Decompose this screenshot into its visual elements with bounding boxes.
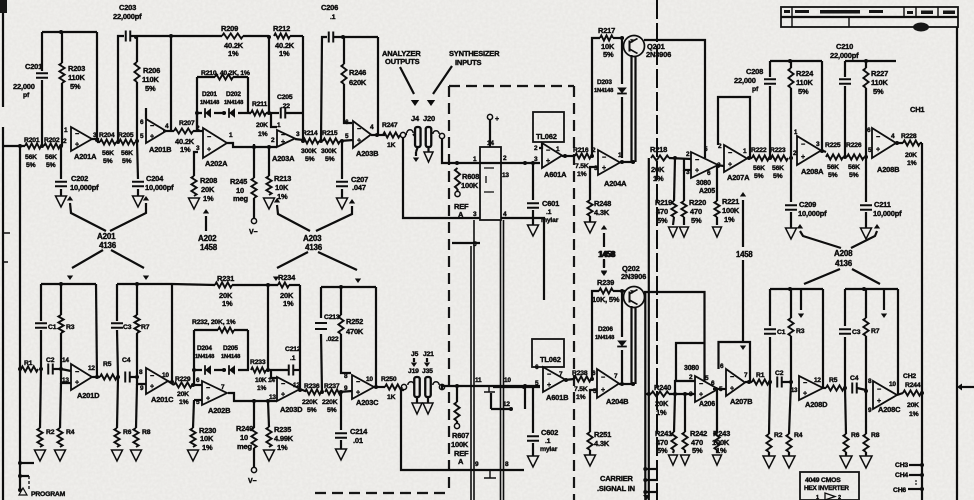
svg-text:10K, 5%: 10K, 5%	[592, 295, 620, 304]
wire R217 to base	[613, 37, 624, 39]
terminal V- bottom	[251, 467, 256, 472]
svg-text:+: +	[695, 168, 699, 175]
node A201B pin5 junction	[135, 139, 139, 143]
resistor R236	[305, 389, 321, 394]
resistor R243 drop	[716, 389, 718, 432]
node A208A output	[820, 149, 824, 153]
svg-text:5%: 5%	[307, 407, 317, 414]
wire D203 drop	[621, 38, 623, 84]
resistor R220	[681, 201, 686, 217]
svg-text:R204: R204	[99, 132, 115, 139]
wire R229 to A202B	[192, 384, 202, 386]
svg-text:5%: 5%	[873, 87, 884, 96]
wire pin12 link	[491, 408, 511, 410]
wire main line bottom	[442, 386, 444, 390]
svg-text:R233: R233	[250, 359, 266, 366]
analyzer pointer	[400, 67, 414, 94]
svg-text:CH2: CH2	[903, 373, 916, 380]
svg-text:D206: D206	[598, 326, 613, 333]
terminal below R607	[456, 421, 458, 423]
node A207B output	[747, 380, 751, 384]
svg-text:R3: R3	[66, 324, 75, 331]
svg-text:−: −	[601, 375, 605, 382]
wire loop2 right vertical	[170, 36, 172, 131]
svg-text:C204: C204	[146, 174, 164, 183]
resistor R231	[215, 282, 232, 287]
svg-text:R221: R221	[722, 197, 739, 206]
op-amp A203D	[277, 377, 300, 401]
svg-text:10,000pf: 10,000pf	[798, 209, 827, 218]
transistor Q202	[624, 287, 645, 308]
svg-text:14: 14	[487, 140, 494, 147]
node R203 top junction	[59, 30, 63, 34]
svg-text:R220: R220	[689, 198, 706, 207]
J5 J21 arrows	[413, 358, 415, 362]
svg-text:.1: .1	[290, 355, 296, 362]
resistor R219 drop	[674, 158, 675, 201]
wire R239 left vertical	[592, 291, 599, 379]
svg-text:R249: R249	[236, 424, 253, 433]
wire diode row bottom	[194, 369, 249, 371]
svg-text:5: 5	[719, 386, 723, 393]
wire C212 to vertical	[294, 369, 300, 371]
wire R246 drop to pin6	[344, 84, 352, 123]
node R211-C205 junction	[267, 111, 271, 115]
svg-text:C1: C1	[777, 329, 786, 336]
svg-text:J20: J20	[423, 114, 435, 123]
wire A204A out	[620, 161, 635, 163]
svg-text:A203D: A203D	[280, 405, 303, 414]
wire into pin14	[61, 369, 71, 371]
svg-text:8: 8	[139, 369, 143, 376]
capacitor C602	[527, 436, 539, 441]
resistor R238	[574, 376, 591, 381]
svg-text:+: +	[699, 392, 703, 399]
op-amp A201B	[146, 119, 166, 143]
svg-text:7: 7	[744, 372, 748, 379]
capacitor C214 drop	[340, 392, 342, 430]
wire R7 right stubs	[865, 289, 867, 391]
svg-text:14: 14	[268, 377, 275, 384]
svg-text:5: 5	[705, 375, 709, 382]
svg-text:22,000pf: 22,000pf	[830, 51, 859, 60]
J35 ground mark	[427, 397, 429, 403]
svg-text:J21: J21	[423, 351, 434, 358]
svg-text:R212: R212	[273, 24, 290, 33]
capacitor C201	[36, 73, 48, 78]
svg-text:1%: 1%	[724, 215, 735, 224]
capacitor C213	[315, 323, 327, 329]
A207 arrow down	[742, 260, 744, 342]
svg-text:R243: R243	[713, 429, 730, 438]
carrier bus taps	[643, 467, 647, 471]
svg-text:A204A: A204A	[604, 179, 627, 188]
svg-text:56K: 56K	[848, 164, 860, 171]
svg-text:R222: R222	[751, 147, 767, 154]
svg-text:−: −	[602, 155, 606, 162]
node A208B pin5 junction	[864, 155, 868, 159]
svg-text:220K: 220K	[322, 399, 338, 406]
svg-text:5%: 5%	[657, 216, 668, 225]
title block frame	[781, 7, 958, 27]
node R246 top junction	[341, 35, 345, 39]
wire loop1b left vertical	[40, 330, 42, 369]
op-amp A202B	[202, 381, 227, 405]
svg-text:C209: C209	[799, 200, 816, 209]
svg-text:A208D: A208D	[805, 400, 828, 409]
svg-text:6: 6	[707, 170, 711, 177]
frame left border	[2, 0, 4, 107]
wire A207A out	[747, 157, 752, 159]
wire R251 drop	[590, 390, 597, 432]
resistor R250	[385, 384, 402, 389]
svg-text:R231: R231	[217, 274, 234, 283]
svg-text:1%: 1%	[277, 443, 288, 452]
node A203B pin5 junction	[340, 139, 344, 143]
svg-text:9: 9	[140, 385, 144, 392]
op-amp A206 3080	[695, 376, 718, 402]
resistor R222	[752, 155, 769, 160]
resistor R607	[454, 402, 459, 421]
wire pin6 stub	[145, 108, 147, 119]
ground below R219	[673, 217, 674, 225]
svg-text:+: +	[75, 141, 79, 148]
svg-text:A207A: A207A	[727, 173, 750, 182]
wire loop1r top	[770, 288, 823, 290]
node x20 bus junction	[18, 144, 22, 148]
svg-text:5%: 5%	[849, 172, 859, 179]
svg-text:pf: pf	[752, 86, 759, 93]
svg-text:1: 1	[229, 132, 233, 139]
svg-text:10: 10	[889, 381, 896, 388]
op-amp A207B	[726, 369, 745, 396]
wire long vertical c	[500, 220, 502, 500]
svg-text:R250: R250	[381, 376, 397, 383]
wire R245 top	[253, 144, 255, 178]
svg-text:C211: C211	[874, 200, 891, 209]
wire A203B out	[371, 134, 385, 136]
wire to V- bottom	[253, 448, 255, 467]
resistor R6 drop	[117, 377, 118, 428]
svg-text:7: 7	[614, 373, 618, 380]
svg-text:R245: R245	[230, 177, 247, 186]
wire R203 stubs	[61, 32, 63, 146]
op-amp A207A	[724, 145, 747, 172]
svg-text:4.99K: 4.99K	[274, 434, 294, 443]
node A201D output	[95, 375, 99, 379]
capacitor C3	[111, 323, 123, 328]
svg-text:R5: R5	[829, 377, 838, 384]
wire A207B out	[745, 381, 752, 383]
terminal J20-out circle	[439, 133, 444, 138]
svg-text:+: +	[801, 154, 805, 161]
contact mark lower	[484, 471, 496, 478]
wire A201B out	[163, 130, 174, 132]
wire C206 right	[334, 36, 378, 38]
node R224 top junction	[788, 59, 792, 63]
capacitor C2	[48, 364, 53, 375]
wire left bus vertical	[19, 146, 21, 490]
node A201C output	[170, 380, 174, 384]
wire pin3 bias	[684, 159, 691, 170]
node A205 output	[716, 164, 720, 168]
resistor R232	[218, 327, 234, 332]
svg-text:3080: 3080	[684, 365, 699, 372]
svg-text:5%: 5%	[691, 216, 702, 225]
svg-text:R1: R1	[756, 372, 765, 379]
svg-text:A: A	[458, 457, 464, 466]
svg-text:−: −	[75, 131, 79, 138]
CH4 stub	[909, 474, 922, 476]
svg-text:13: 13	[62, 377, 69, 384]
node R244 to CH bus	[920, 391, 924, 395]
resistor R221	[714, 201, 719, 217]
svg-text:3: 3	[534, 156, 538, 163]
resistor R6 drop right	[845, 388, 846, 434]
resistor R234	[278, 282, 289, 287]
svg-text:C602: C602	[541, 428, 558, 437]
svg-text:R235: R235	[274, 425, 291, 434]
svg-text:2N3906: 2N3906	[621, 272, 646, 281]
svg-text:5%: 5%	[26, 162, 36, 169]
ground below C214	[340, 440, 342, 449]
svg-text:−: −	[730, 374, 734, 381]
wire R3 stubs	[60, 284, 62, 369]
ground below C601	[532, 210, 534, 225]
svg-text:13: 13	[502, 172, 509, 179]
resistor R235 drop	[268, 401, 269, 427]
CH6 stub	[908, 488, 922, 490]
wire carrier bus line 1	[648, 158, 650, 500]
resistor R7	[134, 315, 139, 333]
svg-text:R225: R225	[825, 142, 841, 149]
svg-text:+: +	[876, 147, 880, 154]
svg-text:100K: 100K	[451, 440, 469, 449]
svg-text:R608: R608	[462, 172, 479, 181]
svg-text:100K: 100K	[722, 206, 740, 215]
wire C209 drop	[790, 158, 792, 202]
svg-text:J4: J4	[411, 114, 420, 123]
svg-text:5%: 5%	[103, 158, 113, 165]
svg-text:J19: J19	[408, 368, 419, 375]
node loop2r top junction	[862, 287, 866, 291]
A207 arrow up	[742, 200, 744, 247]
wire R232 loop left vertical	[193, 330, 195, 385]
svg-text:10K: 10K	[275, 183, 289, 192]
title block ink blob	[913, 23, 929, 32]
op-amp A204B	[597, 369, 619, 398]
svg-text:R226: R226	[846, 142, 862, 149]
svg-text:1: 1	[743, 148, 747, 155]
svg-text:R251: R251	[594, 430, 611, 439]
node C602 junction	[522, 385, 526, 389]
A203 pointer arrows up	[277, 205, 310, 231]
capacitor C601 drop	[532, 163, 534, 200]
op-amp A208C	[873, 381, 897, 409]
svg-text:5%: 5%	[327, 407, 337, 414]
wire C4 to pin8	[857, 388, 866, 390]
node A204B out junctions	[620, 382, 624, 386]
resistor R203	[59, 63, 64, 83]
4049 hex inverter box	[800, 472, 859, 500]
svg-text:R232, 20K, 1%: R232, 20K, 1%	[192, 319, 236, 326]
carrier bus end arrow	[643, 495, 650, 500]
svg-text:3: 3	[717, 162, 721, 169]
op-amp A601A	[542, 143, 562, 168]
node R242 junction	[683, 392, 687, 396]
svg-text:−: −	[728, 150, 732, 157]
node A203A output	[301, 139, 305, 143]
svg-text:A201: A201	[97, 232, 116, 241]
resistor R1 left	[21, 366, 38, 371]
wire R210 ends	[197, 77, 248, 113]
CH dots ellipsis	[915, 480, 917, 485]
svg-text:R6: R6	[123, 429, 132, 436]
svg-text:A202: A202	[198, 234, 217, 243]
1458 left arrow down	[603, 260, 605, 268]
svg-text:5%: 5%	[305, 156, 315, 163]
svg-text:R214: R214	[302, 130, 318, 137]
node loop1r top junction	[788, 287, 792, 291]
svg-text:9: 9	[344, 385, 348, 392]
svg-text:mylar: mylar	[540, 446, 558, 453]
svg-text:pf: pf	[23, 92, 30, 99]
svg-text:20K: 20K	[651, 165, 665, 174]
wire pin9 drop	[137, 377, 146, 384]
wire R211 to C205	[249, 112, 251, 114]
resistor R5 left	[100, 374, 117, 379]
svg-text:3: 3	[686, 169, 690, 176]
svg-text:R237: R237	[324, 383, 340, 390]
svg-text:R224: R224	[796, 69, 814, 78]
A207A feedback loop	[718, 97, 750, 158]
wire main line to A601A	[442, 139, 540, 163]
resistor R6 right	[843, 434, 848, 452]
svg-text:56K: 56K	[45, 154, 57, 161]
TL062 box top	[533, 112, 564, 142]
svg-text:R4: R4	[66, 429, 75, 436]
op-amp A208A	[797, 136, 821, 165]
wire A203A loop left vertical	[268, 37, 270, 113]
svg-text:C3: C3	[852, 329, 861, 336]
op-amp A203B	[353, 121, 371, 148]
svg-text:4: 4	[891, 133, 895, 140]
ground below C207	[341, 189, 343, 198]
svg-text:R208: R208	[200, 176, 217, 185]
capacitor C204	[132, 182, 144, 187]
resistor R5 right	[826, 385, 844, 390]
A202 pointer arrow	[205, 216, 207, 231]
svg-text:C3: C3	[123, 324, 132, 331]
svg-text:5: 5	[704, 146, 708, 153]
svg-text:5%: 5%	[657, 446, 668, 455]
svg-text:3: 3	[473, 211, 477, 218]
svg-text:A208: A208	[834, 249, 853, 258]
resistor R212	[274, 33, 290, 38]
capacitor C4	[125, 372, 130, 383]
wire C202 drop	[60, 146, 62, 179]
ground below R4 right	[788, 452, 790, 456]
svg-text:2: 2	[534, 145, 538, 152]
svg-text:2: 2	[63, 138, 67, 145]
svg-text:TL062: TL062	[540, 355, 561, 364]
capacitor C601	[527, 203, 539, 208]
svg-text:D204: D204	[197, 345, 212, 352]
contact mark upper	[484, 386, 495, 392]
svg-text:5%: 5%	[46, 162, 56, 169]
ground below R8	[131, 450, 142, 461]
svg-text:1458: 1458	[736, 250, 753, 259]
svg-text:R205: R205	[118, 132, 134, 139]
resistor R4 drop right	[789, 382, 791, 434]
A204 arrow down	[603, 259, 605, 267]
wire loop2b top	[117, 283, 172, 285]
resistor R217	[600, 35, 613, 40]
svg-text:A207B: A207B	[730, 397, 753, 406]
svg-text:12: 12	[503, 401, 510, 408]
resistor R209	[222, 33, 243, 38]
node R245 junction	[252, 145, 256, 149]
wire C208 riser	[769, 86, 771, 158]
program bus stub 3	[18, 488, 22, 492]
svg-text:C202: C202	[71, 174, 88, 183]
svg-text:A201B: A201B	[149, 145, 172, 154]
dashed box bottom edge	[315, 492, 449, 494]
svg-text:A205: A205	[699, 188, 715, 195]
resistor R220 drop	[683, 170, 685, 201]
svg-text:1: 1	[618, 152, 622, 159]
wire long vertical b	[473, 220, 475, 500]
svg-text:C210: C210	[836, 42, 853, 51]
svg-text:1: 1	[473, 156, 477, 163]
svg-text:5%: 5%	[692, 446, 703, 455]
svg-text:1%: 1%	[283, 299, 294, 308]
wire A203D out	[300, 389, 305, 391]
svg-text:+: +	[356, 389, 360, 396]
svg-text:R241: R241	[655, 429, 672, 438]
svg-text:3: 3	[689, 391, 693, 398]
terminal J4 circle	[400, 132, 405, 137]
node A204B pin junction	[590, 377, 594, 381]
svg-text:R234: R234	[278, 273, 296, 282]
svg-text:56K: 56K	[102, 150, 114, 157]
svg-text:CH4: CH4	[895, 472, 908, 479]
svg-text:1: 1	[277, 122, 281, 129]
node loop2b top junction	[135, 282, 139, 286]
4049 inverter symbol	[825, 493, 835, 500]
wire A601B main in	[493, 386, 540, 388]
resistor R242 drop	[684, 394, 686, 432]
dashed box left edge	[448, 86, 450, 493]
svg-text:TL062: TL062	[536, 132, 557, 141]
node R7 bottom junction right	[864, 389, 868, 393]
svg-text:1%: 1%	[656, 408, 667, 417]
svg-text:5%: 5%	[70, 82, 81, 91]
svg-text:1: 1	[816, 495, 819, 500]
A204 arrow up	[603, 233, 605, 247]
svg-text:meg: meg	[237, 442, 252, 451]
wire loop2b right vertical	[171, 284, 173, 381]
op-amp A202A	[203, 128, 227, 158]
title block text marks	[784, 10, 955, 14]
svg-text:1%: 1%	[907, 160, 917, 167]
wire plus drop	[489, 120, 491, 147]
ground below R4	[55, 450, 66, 461]
ground below R2	[35, 450, 46, 461]
svg-text:C205: C205	[277, 94, 293, 101]
svg-text:6: 6	[720, 363, 724, 370]
ground below R6	[112, 450, 123, 461]
